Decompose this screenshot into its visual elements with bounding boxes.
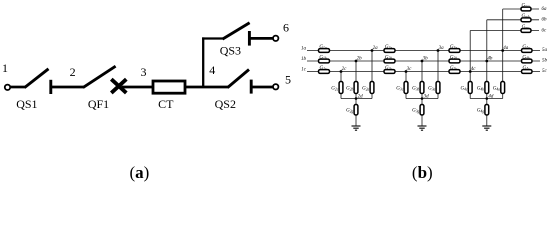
svg-text:2b: 2b — [357, 57, 363, 62]
svg-text:2d: 2d — [358, 94, 364, 99]
svg-text:4a: 4a — [503, 46, 509, 51]
svg-text:5c: 5c — [542, 69, 548, 74]
svg-text:QS1: QS1 — [16, 97, 37, 111]
svg-text:5a: 5a — [542, 48, 548, 53]
svg-text:6c: 6c — [542, 28, 548, 33]
svg-text:G2a: G2a — [385, 45, 392, 50]
svg-text:1c: 1c — [301, 67, 307, 72]
svg-text:4: 4 — [209, 63, 215, 77]
svg-text:3c: 3c — [407, 67, 413, 72]
svg-text:G4b: G4b — [522, 55, 529, 60]
svg-text:4d: 4d — [488, 94, 494, 99]
svg-text:6b: 6b — [542, 18, 548, 23]
svg-text:(a): (a) — [129, 163, 149, 182]
svg-text:G2a: G2a — [362, 87, 369, 92]
svg-text:G3a: G3a — [428, 87, 435, 92]
svg-text:Gmb: Gmb — [521, 14, 529, 19]
svg-text:1a: 1a — [301, 46, 307, 51]
svg-text:Gmc: Gmc — [522, 25, 530, 30]
svg-text:(b): (b) — [412, 163, 433, 182]
svg-text:G4a: G4a — [522, 45, 529, 50]
svg-text:G4c: G4c — [522, 66, 529, 71]
svg-text:G3c: G3c — [396, 87, 403, 92]
svg-text:G3c: G3c — [450, 66, 457, 71]
svg-text:6a: 6a — [542, 7, 548, 12]
svg-text:QS3: QS3 — [220, 44, 241, 58]
svg-text:4b: 4b — [487, 57, 493, 62]
svg-text:G3a: G3a — [450, 45, 457, 50]
svg-text:G2b: G2b — [385, 55, 392, 60]
svg-text:Gma: Gma — [521, 3, 529, 8]
svg-text:QS2: QS2 — [215, 97, 236, 111]
svg-text:3d: 3d — [424, 94, 430, 99]
svg-text:2c: 2c — [342, 67, 348, 72]
svg-text:6: 6 — [283, 21, 289, 35]
svg-text:G3b: G3b — [450, 55, 457, 60]
svg-text:1b: 1b — [301, 57, 307, 62]
svg-text:G2c: G2c — [331, 87, 338, 92]
svg-text:CT: CT — [158, 97, 174, 111]
svg-text:G1b: G1b — [319, 55, 326, 60]
svg-text:3a: 3a — [439, 46, 445, 51]
svg-text:G4a: G4a — [493, 87, 500, 92]
svg-text:5b: 5b — [542, 59, 548, 64]
svg-text:QF1: QF1 — [88, 97, 109, 111]
svg-text:G1c: G1c — [319, 66, 326, 71]
svg-text:2a: 2a — [373, 46, 379, 51]
svg-text:2: 2 — [70, 65, 76, 79]
svg-text:G4g: G4g — [477, 109, 484, 114]
svg-text:G4c: G4c — [460, 87, 467, 92]
svg-text:G1a: G1a — [319, 45, 326, 50]
svg-text:1: 1 — [2, 61, 8, 75]
svg-text:G3b: G3b — [412, 87, 419, 92]
svg-text:4c: 4c — [471, 67, 477, 72]
svg-text:5: 5 — [285, 73, 291, 87]
svg-text:3b: 3b — [423, 57, 429, 62]
svg-text:G2g: G2g — [346, 109, 353, 114]
svg-text:G3g: G3g — [412, 109, 419, 114]
svg-text:G2b: G2b — [346, 87, 353, 92]
svg-text:G4b: G4b — [477, 87, 484, 92]
svg-text:G2c: G2c — [385, 66, 392, 71]
svg-text:3: 3 — [141, 65, 147, 79]
